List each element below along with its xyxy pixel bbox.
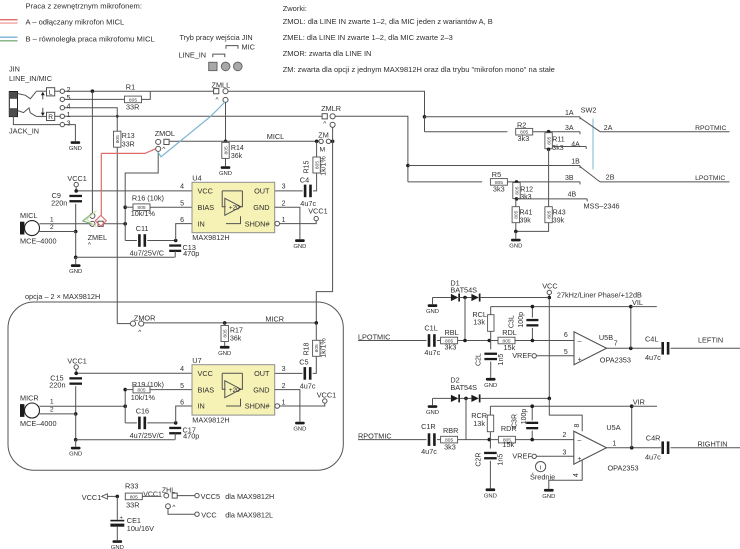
- svg-text:13k: 13k: [473, 317, 485, 326]
- junction C3L top: [531, 305, 535, 309]
- svg-text:2A: 2A: [604, 125, 613, 132]
- terminal VCC: [195, 510, 273, 519]
- svg-text:GND: GND: [69, 146, 82, 152]
- svg-text:C4: C4: [300, 175, 309, 184]
- wire VCC1 to SHDN U7: [280, 403, 325, 406]
- svg-text:RPOTMIC: RPOTMIC: [358, 431, 392, 440]
- svg-text:2: 2: [50, 407, 54, 414]
- jumper ZMLL: [212, 80, 231, 103]
- wire mic pin2: [39, 231, 75, 233]
- diode D1 pair: [433, 278, 550, 301]
- svg-text:opcja – 2 × MAX9812H: opcja – 2 × MAX9812H: [25, 292, 100, 301]
- svg-text:ZMLR: ZMLR: [321, 104, 341, 113]
- svg-text:L: L: [49, 89, 53, 96]
- wire ZMEL square to node: [103, 223, 125, 225]
- jack R switch symbol: [18, 108, 37, 117]
- svg-text:SHDN#: SHDN#: [245, 402, 271, 411]
- ground U7: [293, 422, 306, 433]
- junction MICR R18: [315, 321, 319, 325]
- terminal VCC1 lower: [67, 357, 86, 370]
- U4 pin4 label: [180, 183, 184, 190]
- resistor R43: [545, 207, 566, 225]
- svg-text:4u7c: 4u7c: [645, 453, 661, 462]
- svg-text:LINE_IN/MIC: LINE_IN/MIC: [9, 74, 52, 83]
- R tag box: [47, 112, 55, 121]
- op-amp U5A: [574, 423, 639, 473]
- label 1B: [571, 158, 580, 165]
- svg-text:10u/16V: 10u/16V: [127, 524, 154, 533]
- wire ZMLR lower to ZM vertical: [332, 127, 334, 141]
- VCC1 arrow: [102, 494, 108, 499]
- U5A pin8 label: [574, 423, 581, 427]
- wire VCC1 to R33: [107, 495, 118, 497]
- svg-text:RBL: RBL: [445, 328, 459, 337]
- ground D1: [426, 304, 439, 315]
- junction 1A branch: [423, 115, 427, 119]
- junction C16 left node: [123, 404, 127, 408]
- wire R19 to BIAS: [150, 389, 192, 391]
- terminal VCC: [542, 282, 557, 295]
- jumper ZHL: [162, 487, 177, 511]
- junction ZMLL-R14: [224, 140, 228, 144]
- mic R pin2 label: [50, 407, 54, 414]
- zworki line ZM: [283, 65, 555, 74]
- svg-text:4u7c: 4u7c: [300, 382, 316, 391]
- ground D2: [426, 405, 439, 416]
- resistor R1: [125, 83, 142, 112]
- svg-text:805: 805: [130, 494, 138, 500]
- svg-text:1: 1: [50, 216, 54, 223]
- junction VCC1-C9: [74, 189, 78, 193]
- label MSS-2346: [584, 202, 620, 211]
- U4 pin2 label: [282, 201, 286, 208]
- svg-text:MICL: MICL: [267, 132, 284, 141]
- svg-text:13k: 13k: [473, 419, 485, 428]
- wire RPOTMIC line: [358, 439, 427, 441]
- jack pin 2 contact: [60, 85, 70, 94]
- jack pin 1 contact: [60, 110, 70, 119]
- svg-text:2: 2: [50, 224, 54, 231]
- legend A text: [26, 18, 125, 27]
- wire to gnd mic lower: [75, 440, 77, 447]
- svg-text:7: 7: [614, 340, 618, 347]
- junction D1 tap: [463, 296, 467, 300]
- svg-text:8: 8: [574, 423, 581, 427]
- svg-text:ZM: ZM: [318, 130, 329, 139]
- junction RCL bottom: [488, 339, 492, 343]
- op-amp U5B: [574, 332, 631, 365]
- wire micR pin1: [40, 405, 126, 407]
- junction input node L: [463, 339, 467, 343]
- svg-text:6: 6: [564, 332, 568, 339]
- wire node vertical lower: [124, 390, 126, 423]
- svg-text:MAX9812H: MAX9812H: [192, 415, 229, 424]
- label MICR net: [265, 315, 284, 324]
- zworki line ZMOR: [283, 49, 372, 58]
- svg-text:R11: R11: [552, 137, 564, 144]
- wire pin2 to ZMLL: [65, 90, 214, 92]
- wire VIL vertical: [630, 307, 632, 349]
- svg-text:MICR: MICR: [20, 394, 39, 403]
- svg-text:LINE_IN: LINE_IN: [179, 51, 207, 60]
- wire D2 anode gnd: [432, 398, 434, 405]
- svg-text:RBR: RBR: [443, 426, 458, 435]
- ground SW2 divider: [509, 239, 522, 250]
- capacitor C15: [49, 373, 82, 389]
- ground R17: [218, 346, 231, 357]
- wire U5A out: [607, 447, 662, 449]
- svg-text:U5B: U5B: [599, 333, 613, 342]
- svg-text:+20: +20: [229, 387, 240, 394]
- terminal VCC5: [195, 492, 274, 501]
- junction C3R bottom: [530, 438, 534, 442]
- wire D2 tap down: [465, 398, 467, 439]
- svg-text:BIAS: BIAS: [198, 385, 215, 394]
- svg-text:R43: R43: [553, 210, 566, 217]
- svg-text:2: 2: [563, 432, 567, 439]
- label VIL: [632, 298, 643, 307]
- wire R box to switch: [36, 115, 46, 117]
- svg-text:33R: 33R: [126, 102, 139, 111]
- wire C1L to RBL: [437, 340, 441, 342]
- jumper legend pad square: [209, 62, 217, 70]
- junction R11 bottom: [547, 148, 551, 152]
- svg-text:GND: GND: [509, 244, 522, 250]
- svg-text:470p: 470p: [183, 249, 199, 258]
- svg-text:OUT: OUT: [254, 369, 270, 378]
- svg-text:LEFTIN: LEFTIN: [698, 336, 723, 345]
- wire 1A line: [425, 117, 581, 120]
- svg-text:39k: 39k: [520, 218, 532, 225]
- svg-text:33R: 33R: [126, 501, 139, 510]
- label VCC1 mid: [143, 492, 162, 499]
- svg-text:3B: 3B: [565, 175, 574, 182]
- junction VIR: [630, 404, 634, 408]
- svg-text:VCC1: VCC1: [317, 390, 336, 399]
- wire D1 anode gnd: [432, 298, 434, 305]
- svg-text:5: 5: [180, 383, 184, 390]
- U4 pin5 label: [180, 201, 184, 208]
- ground C2L: [484, 378, 497, 389]
- junction 1B branch: [406, 164, 410, 168]
- svg-text:RIGHTIN: RIGHTIN: [698, 439, 728, 448]
- wire ZMLR to SW2 B: [335, 116, 408, 182]
- label LPOTMIC: [695, 175, 725, 182]
- capacitor C1L: [424, 324, 440, 357]
- jumper legend LINE_IN label: [179, 51, 207, 60]
- resistor RCL: [472, 307, 494, 341]
- wire to gnd mic: [75, 257, 77, 264]
- resistor RBR: [441, 426, 459, 452]
- wire R11 to R43: [548, 149, 550, 207]
- wire VCC vertical: [548, 295, 550, 399]
- wire R41 top: [515, 199, 517, 207]
- svg-text:VCC1: VCC1: [67, 174, 86, 183]
- svg-text:VCC: VCC: [201, 510, 216, 519]
- svg-text:2B: 2B: [606, 174, 615, 181]
- svg-text:10k/1%: 10k/1%: [131, 209, 156, 218]
- mic pin2 label: [50, 224, 54, 231]
- jack pin 5 contact: [60, 93, 70, 102]
- junction R12 top: [515, 180, 519, 184]
- svg-text:ZM: zwarta dla opcji z jednym: ZM: zwarta dla opcji z jednym MAX9812H o…: [283, 65, 555, 74]
- L tag box: [47, 88, 55, 97]
- svg-text:C3L: C3L: [508, 315, 515, 328]
- resistor R12: [513, 183, 533, 202]
- jumper legend pad circle 2: [234, 62, 243, 71]
- svg-text:6: 6: [180, 400, 184, 407]
- ground U4: [293, 239, 306, 250]
- jumper ZM: [318, 130, 330, 153]
- label 2B: [606, 174, 615, 181]
- wire R1 up to pin2 line: [142, 91, 151, 99]
- junction VIL out: [629, 347, 633, 351]
- U4 pin3 label: [282, 183, 286, 190]
- svg-text:4u7/25V/C: 4u7/25V/C: [130, 431, 164, 440]
- capacitor C2R: [475, 440, 504, 489]
- capacitor CE1: [110, 496, 154, 533]
- svg-text:2: 2: [282, 383, 286, 390]
- wire ZMLL to SW right: [228, 91, 425, 117]
- svg-text:1n5: 1n5: [498, 354, 505, 366]
- wire C1R to RBR: [437, 439, 441, 441]
- svg-text:BIAS: BIAS: [198, 203, 215, 212]
- U7 pin2 label: [282, 383, 286, 390]
- svg-text:5: 5: [180, 201, 184, 208]
- label RPOTMIC: [695, 125, 726, 132]
- svg-text:805: 805: [314, 344, 320, 352]
- svg-text:VIR: VIR: [633, 397, 645, 406]
- wire ZHL to VCC5: [177, 495, 195, 497]
- svg-text:VCC1: VCC1: [82, 493, 101, 502]
- junction R11 top: [547, 130, 551, 134]
- svg-text:–: –: [578, 338, 582, 345]
- svg-text:+: +: [577, 456, 581, 463]
- svg-text:3: 3: [282, 183, 286, 190]
- svg-text:BAT54S: BAT54S: [450, 286, 477, 295]
- wire variant A red diamond: [95, 215, 106, 226]
- svg-text:LPOTMIC: LPOTMIC: [358, 332, 390, 341]
- wire D1 tap down: [464, 298, 466, 341]
- svg-text:OPA2353: OPA2353: [600, 356, 631, 365]
- capacitor C3R: [511, 406, 538, 439]
- terminal VCC1 upper: [67, 174, 86, 187]
- svg-text:3k3: 3k3: [520, 194, 531, 201]
- svg-text:220n: 220n: [51, 198, 67, 207]
- svg-text:R15: R15: [303, 160, 310, 173]
- svg-text:1: 1: [612, 440, 616, 447]
- legend title: [26, 2, 142, 11]
- capacitor C3L: [508, 307, 538, 341]
- label 2A: [604, 125, 613, 132]
- L switch arrow: [41, 92, 45, 100]
- svg-text:VCC: VCC: [542, 282, 557, 291]
- wire VREF to pin5: [536, 355, 574, 357]
- svg-text:36k: 36k: [231, 153, 243, 160]
- wire R box to pin1: [55, 115, 60, 117]
- svg-text:MAX9812H: MAX9812H: [192, 233, 229, 242]
- label RPOTMIC: [358, 431, 392, 440]
- resistor RDR: [498, 424, 516, 449]
- svg-text:–: –: [577, 437, 581, 444]
- junction VCC D1: [548, 296, 552, 300]
- svg-text:JACK_IN: JACK_IN: [9, 127, 39, 136]
- ground mic L: [69, 264, 82, 275]
- resistor RDL: [498, 328, 517, 352]
- wire U4 gnd pin: [275, 207, 300, 239]
- svg-text:VIL: VIL: [632, 298, 643, 307]
- svg-text:ZMOL: ZMOL: [155, 129, 175, 138]
- junction R12 bottom: [515, 197, 519, 201]
- resistor R13: [114, 131, 135, 148]
- svg-text:C4L: C4L: [645, 335, 658, 344]
- U7 SHDN bubble: [275, 404, 280, 409]
- svg-text:36k: 36k: [230, 336, 242, 343]
- jack pin 4 contact: [60, 101, 70, 110]
- svg-text:2: 2: [282, 201, 286, 208]
- label VCC1 left: [82, 493, 101, 502]
- jack L switch symbol: [18, 91, 37, 98]
- svg-text:R14: R14: [231, 145, 244, 152]
- svg-text:R: R: [48, 114, 53, 121]
- wire MICR line: [144, 322, 316, 324]
- jumper legend pad circle 1: [221, 62, 230, 71]
- capacitor C4L: [645, 335, 669, 363]
- zworki line ZMEL: [283, 33, 453, 42]
- wire U7 OUT to C5: [275, 372, 303, 374]
- wire RBL to node: [458, 340, 499, 342]
- wire C16 node to IN: [176, 406, 192, 423]
- wire node vertical: [124, 207, 126, 240]
- svg-text:ZMOR: zwarta dla LINE IN: ZMOR: zwarta dla LINE IN: [283, 49, 372, 58]
- svg-text:C16: C16: [136, 406, 149, 415]
- svg-text:3k3: 3k3: [518, 134, 530, 143]
- ic U4 body: [192, 174, 275, 242]
- svg-text:3k3: 3k3: [493, 184, 505, 193]
- svg-text:GND: GND: [293, 244, 306, 250]
- wire VIR vertical: [631, 406, 633, 448]
- resistor RBL: [441, 328, 459, 351]
- svg-text:GND: GND: [253, 203, 269, 212]
- svg-text:4: 4: [573, 473, 580, 477]
- mic R pin1 label: [50, 399, 54, 406]
- wire MICL line: [169, 140, 319, 142]
- svg-text:GND: GND: [484, 383, 497, 389]
- jumper ZMOL: [155, 129, 175, 153]
- U4 SHDN bubble: [275, 221, 280, 226]
- R switch arrow: [41, 108, 45, 116]
- wire feedback line R: [490, 405, 631, 407]
- junction R19 left: [123, 388, 127, 392]
- svg-text:BAT54S: BAT54S: [450, 383, 477, 392]
- svg-text:GND: GND: [426, 309, 439, 315]
- svg-text:MSS–2346: MSS–2346: [584, 202, 620, 211]
- switch arm B: [580, 167, 600, 182]
- svg-text:R5: R5: [492, 170, 501, 179]
- wire C9 to mic line: [75, 204, 77, 232]
- junction MICR R17: [223, 321, 227, 325]
- svg-text:805: 805: [115, 135, 121, 143]
- ground R14: [219, 166, 232, 177]
- svg-text:4B: 4B: [568, 192, 577, 199]
- svg-text:A – odłączany mikrofon MICL: A – odłączany mikrofon MICL: [26, 18, 125, 27]
- svg-text:1n5: 1n5: [498, 454, 505, 466]
- label filter note: [557, 290, 642, 299]
- wire R18 to C5 node: [313, 356, 317, 373]
- svg-text:B – równoległa praca mikrofomu: B – równoległa praca mikrofomu MICL: [26, 35, 155, 44]
- jumper legend LINE_IN bracket: [213, 54, 225, 57]
- microphone MICR: [20, 394, 57, 429]
- resistor RCR: [471, 406, 494, 439]
- svg-text:MCE–4000: MCE–4000: [20, 237, 57, 246]
- ic U7 body: [192, 356, 275, 424]
- junction C15 mic line: [74, 412, 78, 416]
- svg-text:OPA2353: OPA2353: [608, 464, 639, 473]
- junction VIR out: [630, 446, 634, 450]
- svg-text:C3R: C3R: [511, 414, 518, 428]
- opcja label: [25, 292, 100, 301]
- label 3A: [565, 125, 574, 132]
- svg-text:39k: 39k: [553, 218, 565, 225]
- svg-text:VREF: VREF: [512, 351, 532, 360]
- svg-text:MICL: MICL: [20, 211, 37, 220]
- jumper ZMLR: [321, 104, 341, 127]
- wire VIR stub: [632, 405, 657, 407]
- svg-text:RPOTMIC: RPOTMIC: [695, 125, 726, 132]
- U5B pin5 label: [564, 349, 568, 356]
- label LEFTIN: [698, 336, 723, 345]
- wire pin3 to gnd: [65, 125, 76, 142]
- svg-text:1k/1%: 1k/1%: [320, 156, 327, 175]
- svg-text:15k: 15k: [502, 440, 514, 449]
- terminal VCC1 shdn U7: [317, 390, 336, 403]
- svg-text:VCC1: VCC1: [308, 206, 327, 215]
- svg-text:5: 5: [564, 349, 568, 356]
- wire U5B out: [607, 347, 662, 349]
- svg-text:3k3: 3k3: [445, 342, 457, 351]
- junction gnd rail: [74, 255, 78, 259]
- wire RBR to node: [458, 439, 499, 441]
- mic pin1 label: [50, 216, 54, 223]
- wire pin1 to ZMLR: [65, 115, 323, 117]
- JACK_IN label: [9, 127, 39, 136]
- U5A pin2 label: [563, 432, 567, 439]
- wire CE1 to gnd: [116, 527, 118, 541]
- zworki line ZMOL: [283, 17, 493, 26]
- label LPOTMIC: [358, 332, 390, 341]
- svg-text:4: 4: [180, 183, 184, 190]
- capacitor C16: [125, 406, 176, 440]
- junction C9 mic line: [74, 230, 78, 234]
- wire VCC1 to U4 VCC: [76, 187, 192, 191]
- svg-text:ZMEL: dla LINE IN zwarte 1–2,: ZMEL: dla LINE IN zwarte 1–2, dla MIC zw…: [283, 33, 453, 42]
- svg-text:805: 805: [223, 146, 229, 154]
- svg-text:R12: R12: [520, 186, 533, 193]
- terminal VCC1 shdn: [308, 206, 327, 221]
- svg-text:33R: 33R: [122, 142, 135, 149]
- svg-text:Zworki:: Zworki:: [283, 4, 307, 13]
- label 1A: [565, 110, 574, 117]
- info icon: [536, 462, 546, 472]
- svg-text:C1L: C1L: [424, 324, 437, 333]
- svg-text:ZMLL: ZMLL: [212, 80, 231, 89]
- wire micR pin2: [39, 413, 75, 415]
- svg-text:IN: IN: [198, 219, 205, 228]
- svg-text:GND: GND: [426, 410, 439, 416]
- svg-text:4u7c: 4u7c: [645, 353, 661, 362]
- resistor R11: [545, 133, 565, 152]
- legend B sample wire: [0, 37, 18, 41]
